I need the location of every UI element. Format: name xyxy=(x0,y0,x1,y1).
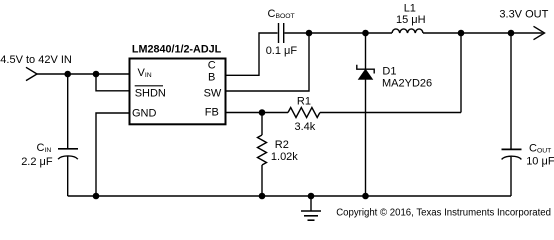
op-amp U1 LM2840 regulator box xyxy=(130,59,226,125)
svg-text:3.3V OUT: 3.3V OUT xyxy=(499,8,548,20)
wire COUT riser xyxy=(510,33,512,149)
wire FB pin xyxy=(227,112,289,114)
wire diode cathode riser xyxy=(365,33,367,69)
svg-text:SW: SW xyxy=(204,88,222,100)
node FB divider junction xyxy=(259,109,266,116)
svg-text:4.5V to 42V IN: 4.5V to 42V IN xyxy=(0,54,72,66)
svg-text:C: C xyxy=(208,59,216,71)
ground xyxy=(301,196,321,220)
svg-text:Copyright © 2016, Texas Instru: Copyright © 2016, Texas Instruments Inco… xyxy=(336,208,551,219)
wire diode node to inductor xyxy=(366,32,393,34)
svg-text:FB: FB xyxy=(205,106,219,118)
svg-text:3.4k: 3.4k xyxy=(295,121,316,133)
svg-text:2.2 μF: 2.2 μF xyxy=(21,156,53,168)
svg-text:10 μF: 10 μF xyxy=(526,155,554,167)
node R2 on ground rail xyxy=(259,193,266,200)
capacitor CIN xyxy=(58,149,78,159)
node COUT junction xyxy=(508,30,515,37)
svg-text:L1: L1 xyxy=(404,2,416,14)
input source arrow xyxy=(26,67,37,80)
wire GND pin to ground rail xyxy=(96,113,129,196)
wire diode anode to ground rail xyxy=(365,79,367,196)
svg-text:0.1 μF: 0.1 μF xyxy=(266,45,298,57)
node FB sense junction xyxy=(458,30,465,37)
wire inductor to FB sense node xyxy=(423,32,461,34)
wire input rail xyxy=(37,73,129,75)
diode D1 schottky xyxy=(357,65,374,80)
wire SW node to diode node xyxy=(309,32,366,34)
svg-text:R1: R1 xyxy=(297,96,311,108)
wire CIN to ground rail xyxy=(67,156,69,196)
node input junction B xyxy=(93,71,100,78)
resistor R1 xyxy=(288,108,320,118)
svg-text:CIN: CIN xyxy=(37,142,52,154)
node diode top junction xyxy=(362,30,369,37)
wire CBOOT to SW node xyxy=(285,32,310,34)
svg-text:MA2YD26: MA2YD26 xyxy=(382,78,432,90)
node SW junction xyxy=(306,30,313,37)
svg-text:LM2840/1/2-ADJL: LM2840/1/2-ADJL xyxy=(132,44,222,56)
node ground symbol junction xyxy=(308,193,315,200)
wire node B to SHDN pin xyxy=(96,74,129,91)
svg-text:R2: R2 xyxy=(275,139,289,151)
capacitor COUT xyxy=(502,149,522,159)
svg-text:COUT: COUT xyxy=(529,143,551,155)
svg-text:D1: D1 xyxy=(382,65,396,77)
wire COUT to ground rail xyxy=(510,157,512,196)
wire ground rail xyxy=(68,195,511,197)
node GND junction on ground rail xyxy=(93,193,100,200)
node input junction A xyxy=(64,71,71,78)
svg-text:VIN: VIN xyxy=(138,67,152,79)
capacitor CBOOT xyxy=(279,23,284,43)
wire output rail xyxy=(461,32,543,34)
wire R1 to FB sense riser xyxy=(320,112,461,114)
wire node A down to CIN xyxy=(67,74,69,149)
wire FB node down to R2 xyxy=(261,113,263,136)
inductor L1 xyxy=(392,29,423,33)
output arrow xyxy=(534,26,545,39)
svg-text:SHDN: SHDN xyxy=(135,88,166,100)
node diode anode on ground rail xyxy=(362,193,369,200)
wire FB sense riser xyxy=(460,33,462,113)
svg-text:CBOOT: CBOOT xyxy=(268,8,295,20)
svg-text:15 μH: 15 μH xyxy=(396,14,426,26)
svg-text:1.02k: 1.02k xyxy=(271,151,298,163)
svg-text:GND: GND xyxy=(132,108,157,120)
wire CB pin to CBOOT xyxy=(227,33,278,75)
resistor R2 xyxy=(258,135,267,165)
svg-text:B: B xyxy=(208,71,215,83)
wire R2 to ground rail xyxy=(261,165,263,196)
wire SW pin riser xyxy=(227,33,310,91)
